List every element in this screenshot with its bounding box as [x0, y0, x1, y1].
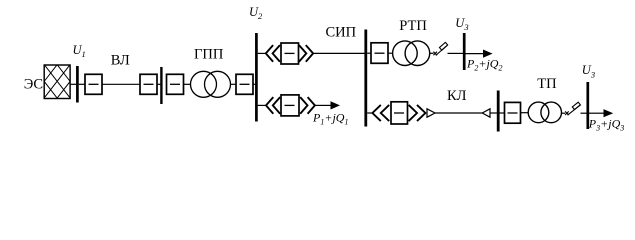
circuit breaker Q4 (box with dash): [236, 74, 253, 94]
circuit breaker (box with dash) ТП feeder: [505, 102, 521, 123]
wire СИП bus to drawout breaker (КЛ feeder): [367, 112, 372, 114]
svg-text:РТП: РТП: [399, 18, 427, 34]
circuit breaker Q1 (box with dash): [85, 74, 102, 94]
busbar U1: [76, 66, 79, 103]
wire to load arrow P1: [316, 104, 332, 106]
wire breaker to transformer ТП: [521, 112, 529, 114]
wire U2 bus to drawout breaker (bottom feeder): [258, 104, 267, 106]
wire U2 bus to drawout breaker (top feeder): [258, 52, 267, 54]
svg-text:P3+jQ3: P3+jQ3: [588, 117, 624, 133]
drawout breaker (chevrons + box) top feeder: [266, 43, 313, 64]
drawout breaker (chevrons + box) КЛ feeder: [372, 102, 425, 124]
wire transformer to disconnector (bottom): [562, 112, 566, 114]
busbar ГПП high side: [160, 67, 162, 104]
svg-text:P2+jQ2: P2+jQ2: [466, 56, 502, 72]
cable termination (open triangle right): [427, 109, 435, 117]
svg-text:СИП: СИП: [326, 24, 357, 40]
load arrow P1: [331, 101, 341, 109]
wire disconnector to busbar U3 bottom: [581, 112, 587, 114]
svg-text:P1+jQ1: P1+jQ1: [312, 110, 348, 126]
load arrow P3: [589, 112, 605, 114]
svg-text:ВЛ: ВЛ: [111, 53, 130, 69]
wire transformer to breaker: [231, 83, 237, 85]
busbar ТП high side: [497, 91, 500, 132]
wire breaker to busbar: [157, 83, 161, 85]
busbar U2: [255, 33, 258, 122]
disconnector (hinge x, blade, drawout mark) top: [433, 42, 447, 55]
wire ЭС to busbar U1: [70, 83, 76, 85]
svg-text:ЭС: ЭС: [24, 77, 43, 93]
circuit breaker Q3 (box with dash): [167, 74, 184, 94]
wire breaker to transformer: [184, 83, 192, 85]
cable termination (open triangle left): [482, 109, 490, 117]
wire transformer to disconnector: [430, 52, 434, 54]
transformer ТП (two circles): [528, 102, 561, 123]
disconnector (hinge x, blade, drawout mark) bottom: [565, 102, 581, 115]
wire breaker to busbar U2: [253, 83, 256, 85]
wire СИП line to bus: [314, 52, 365, 54]
wire busbar U1 to breaker: [79, 83, 85, 85]
wire disconnector to busbar U3 top: [448, 52, 464, 54]
wire СИП bus to breaker (РТП feeder): [367, 52, 371, 54]
busbar СИП: [364, 30, 367, 127]
wire ВЛ overhead line: [102, 83, 140, 85]
power source ЭС (hatched box): [44, 65, 70, 99]
load arrow P2: [466, 53, 485, 55]
busbar U3 (top): [463, 33, 466, 70]
drawout breaker (chevrons + box) bottom feeder: [266, 95, 315, 116]
transformer ГПП (two circles): [191, 71, 231, 97]
circuit breaker (box with dash) РТП feeder: [371, 43, 388, 64]
svg-text:ТП: ТП: [537, 76, 557, 92]
transformer РТП (two circles): [393, 41, 430, 66]
circuit breaker Q2 (box with dash): [140, 74, 157, 94]
wire КЛ cable line: [435, 112, 483, 114]
busbar U3 (bottom right): [586, 82, 589, 129]
wire busbar to breaker ТП: [490, 112, 505, 114]
svg-text:ГПП: ГПП: [194, 46, 224, 62]
svg-text:КЛ: КЛ: [447, 88, 467, 104]
wire breaker to transformer РТП: [388, 52, 393, 54]
